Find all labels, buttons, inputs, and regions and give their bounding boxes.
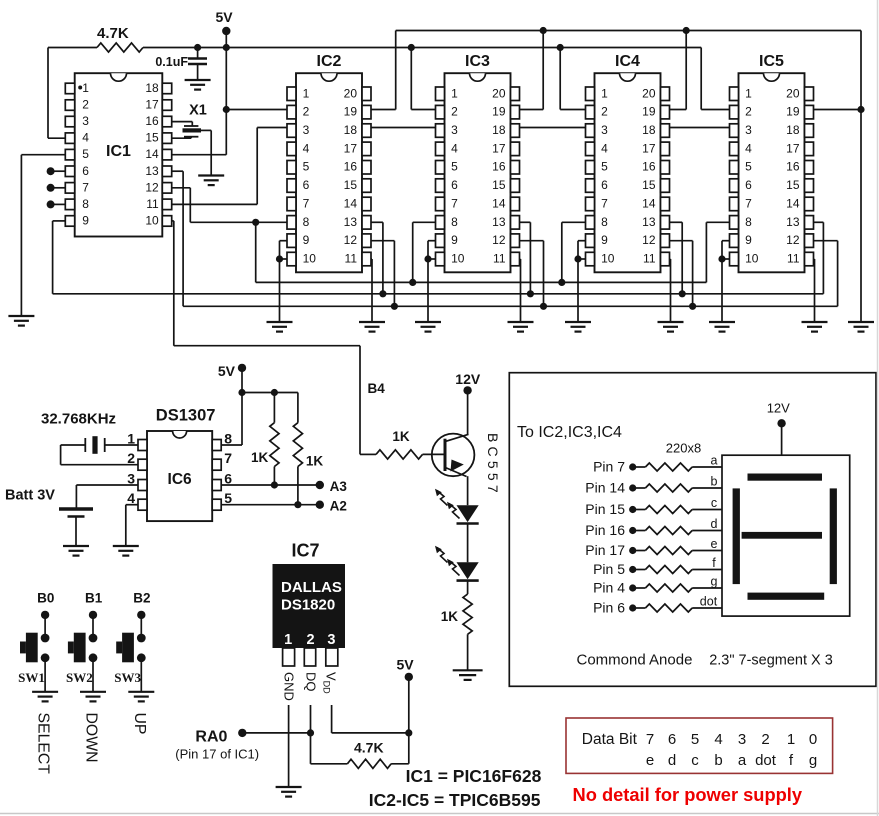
svg-text:Pin 4: Pin 4: [593, 580, 625, 596]
svg-text:8: 8: [82, 197, 89, 211]
svg-text:X1: X1: [189, 103, 207, 119]
svg-text:20: 20: [492, 86, 506, 100]
svg-text:16: 16: [492, 160, 506, 174]
svg-text:11: 11: [493, 252, 506, 266]
svg-text:2: 2: [761, 731, 769, 748]
svg-text:10: 10: [451, 252, 465, 266]
svg-text:15: 15: [344, 178, 358, 192]
svg-text:5V: 5V: [218, 363, 236, 379]
svg-text:BC557: BC557: [485, 433, 501, 497]
svg-text:To IC2,IC3,IC4: To IC2,IC3,IC4: [517, 424, 622, 441]
svg-text:e: e: [646, 752, 654, 769]
svg-text:1K: 1K: [441, 609, 459, 624]
svg-text:c: c: [711, 496, 717, 510]
svg-text:20: 20: [786, 86, 800, 100]
svg-text:DOWN: DOWN: [83, 713, 100, 763]
svg-text:e: e: [711, 537, 718, 551]
svg-text:Pin 5: Pin 5: [593, 561, 625, 577]
svg-text:11: 11: [643, 252, 656, 266]
svg-text:1K: 1K: [251, 450, 269, 465]
svg-text:Commond Anode: Commond Anode: [577, 652, 693, 669]
svg-text:13: 13: [145, 164, 159, 178]
svg-text:DQ: DQ: [304, 672, 319, 692]
svg-text:3: 3: [601, 123, 608, 137]
svg-text:19: 19: [642, 105, 656, 119]
svg-text:7: 7: [745, 197, 752, 211]
svg-text:6: 6: [601, 178, 608, 192]
svg-text:6: 6: [224, 471, 232, 487]
svg-text:Pin 6: Pin 6: [593, 600, 625, 616]
svg-text:9: 9: [745, 233, 752, 247]
svg-text:7: 7: [451, 197, 458, 211]
svg-text:g: g: [809, 752, 817, 769]
svg-text:4: 4: [451, 141, 458, 155]
svg-text:b: b: [711, 475, 718, 489]
svg-text:17: 17: [642, 141, 656, 155]
svg-text:14: 14: [786, 197, 800, 211]
svg-text:IC1 = PIC16F628: IC1 = PIC16F628: [406, 766, 542, 786]
svg-text:13: 13: [492, 215, 506, 229]
svg-text:15: 15: [786, 178, 800, 192]
svg-text:1: 1: [451, 86, 458, 100]
svg-text:1: 1: [284, 632, 292, 648]
svg-text:DS1307: DS1307: [156, 407, 216, 425]
svg-text:2: 2: [82, 98, 89, 112]
svg-text:1: 1: [745, 86, 752, 100]
svg-text:3: 3: [451, 123, 458, 137]
svg-text:5: 5: [303, 160, 310, 174]
svg-text:2: 2: [306, 632, 314, 648]
svg-text:5V: 5V: [397, 657, 415, 673]
svg-text:7: 7: [303, 197, 310, 211]
svg-text:2: 2: [451, 105, 458, 119]
svg-text:5: 5: [451, 160, 458, 174]
svg-text:0: 0: [809, 731, 817, 748]
svg-text:18: 18: [492, 123, 506, 137]
svg-text:16: 16: [145, 114, 159, 128]
svg-text:4.7K: 4.7K: [354, 740, 384, 756]
svg-text:20: 20: [642, 86, 656, 100]
svg-text:12: 12: [642, 233, 656, 247]
svg-text:Batt 3V: Batt 3V: [5, 488, 55, 504]
svg-text:6: 6: [668, 731, 676, 748]
svg-text:3: 3: [745, 123, 752, 137]
svg-text:4: 4: [601, 141, 608, 155]
svg-text:1: 1: [82, 81, 89, 95]
svg-text:12V: 12V: [455, 371, 481, 387]
svg-text:IC3: IC3: [465, 53, 490, 70]
svg-text:B4: B4: [368, 381, 386, 396]
svg-text:5: 5: [224, 490, 232, 506]
svg-text:d: d: [668, 752, 676, 769]
svg-text:13: 13: [786, 215, 800, 229]
svg-text:7: 7: [82, 180, 89, 194]
svg-text:6: 6: [451, 178, 458, 192]
svg-text:12: 12: [344, 233, 358, 247]
svg-text:16: 16: [344, 160, 358, 174]
svg-text:4.7K: 4.7K: [97, 25, 129, 42]
svg-text:5V: 5V: [215, 9, 233, 25]
svg-text:18: 18: [145, 81, 159, 95]
svg-text:18: 18: [786, 123, 800, 137]
svg-text:6: 6: [745, 178, 752, 192]
svg-text:5: 5: [601, 160, 608, 174]
svg-text:f: f: [712, 556, 716, 570]
svg-text:11: 11: [146, 197, 159, 211]
svg-text:SW1: SW1: [18, 670, 45, 685]
svg-text:Pin 16: Pin 16: [585, 522, 625, 538]
svg-text:0.1uF: 0.1uF: [155, 55, 188, 69]
svg-text:4: 4: [745, 141, 752, 155]
svg-text:IC7: IC7: [291, 541, 319, 561]
svg-text:4: 4: [714, 731, 722, 748]
svg-text:10: 10: [745, 252, 759, 266]
svg-text:220x8: 220x8: [666, 441, 701, 456]
svg-text:13: 13: [344, 215, 358, 229]
svg-text:12: 12: [492, 233, 506, 247]
svg-text:19: 19: [786, 105, 800, 119]
svg-text:a: a: [711, 454, 718, 468]
svg-text:10: 10: [145, 213, 159, 227]
svg-text:7: 7: [646, 731, 654, 748]
svg-text:DS1820: DS1820: [281, 597, 335, 614]
svg-text:A2: A2: [330, 499, 347, 514]
svg-text:11: 11: [345, 252, 358, 266]
svg-text:1: 1: [303, 86, 310, 100]
svg-text:IC4: IC4: [615, 53, 640, 70]
svg-text:c: c: [691, 752, 699, 769]
svg-text:14: 14: [492, 197, 506, 211]
svg-text:IC2-IC5 = TPIC6B595: IC2-IC5 = TPIC6B595: [369, 790, 541, 810]
svg-text:16: 16: [786, 160, 800, 174]
svg-text:1: 1: [127, 431, 135, 447]
svg-text:Pin 15: Pin 15: [585, 501, 625, 517]
svg-text:(Pin 17 of IC1): (Pin 17 of IC1): [175, 747, 259, 762]
svg-text:16: 16: [642, 160, 656, 174]
svg-text:4: 4: [82, 131, 89, 145]
svg-text:UP: UP: [131, 713, 148, 735]
svg-text:10: 10: [303, 252, 317, 266]
svg-text:dot: dot: [755, 752, 777, 769]
svg-text:B2: B2: [133, 591, 150, 606]
svg-text:d: d: [711, 517, 718, 531]
svg-text:19: 19: [492, 105, 506, 119]
svg-text:3: 3: [738, 731, 746, 748]
svg-text:17: 17: [145, 98, 159, 112]
svg-text:5: 5: [691, 731, 699, 748]
svg-text:17: 17: [344, 141, 358, 155]
svg-text:SW2: SW2: [66, 670, 93, 685]
svg-text:5: 5: [745, 160, 752, 174]
svg-text:15: 15: [492, 178, 506, 192]
svg-text:a: a: [738, 752, 747, 769]
svg-text:1: 1: [787, 731, 795, 748]
svg-text:RA0: RA0: [195, 729, 227, 746]
svg-text:SELECT: SELECT: [35, 713, 52, 775]
svg-text:14: 14: [344, 197, 358, 211]
svg-text:SW3: SW3: [114, 670, 141, 685]
svg-text:7: 7: [601, 197, 608, 211]
svg-text:4: 4: [127, 490, 135, 506]
svg-text:g: g: [711, 575, 718, 589]
svg-text:IC6: IC6: [168, 471, 193, 488]
svg-text:Pin 7: Pin 7: [593, 459, 625, 475]
svg-text:7: 7: [224, 450, 232, 466]
svg-text:4: 4: [303, 141, 310, 155]
svg-text:6: 6: [82, 164, 89, 178]
svg-text:IC5: IC5: [759, 53, 784, 70]
svg-text:9: 9: [82, 213, 89, 227]
svg-text:32.768KHz: 32.768KHz: [41, 411, 116, 428]
svg-text:15: 15: [145, 131, 159, 145]
svg-text:10: 10: [601, 252, 615, 266]
svg-text:15: 15: [642, 178, 656, 192]
svg-text:9: 9: [601, 233, 608, 247]
svg-text:2: 2: [303, 105, 310, 119]
svg-text:GND: GND: [282, 672, 297, 701]
svg-text:8: 8: [303, 215, 310, 229]
svg-text:9: 9: [303, 233, 310, 247]
svg-text:IC1: IC1: [106, 143, 131, 160]
svg-text:14: 14: [642, 197, 656, 211]
svg-text:3: 3: [82, 114, 89, 128]
svg-text:A3: A3: [330, 479, 348, 494]
svg-text:8: 8: [601, 215, 608, 229]
svg-text:8: 8: [224, 431, 232, 447]
svg-text:3: 3: [127, 471, 135, 487]
svg-text:Pin 14: Pin 14: [585, 480, 625, 496]
svg-text:Pin 17: Pin 17: [585, 542, 625, 558]
svg-text:12: 12: [145, 180, 159, 194]
svg-text:12V: 12V: [767, 401, 790, 416]
svg-text:2: 2: [127, 450, 135, 466]
svg-text:B0: B0: [37, 591, 54, 606]
svg-text:9: 9: [451, 233, 458, 247]
svg-text:11: 11: [787, 252, 800, 266]
svg-text:3: 3: [327, 632, 335, 648]
svg-text:1K: 1K: [392, 429, 410, 444]
svg-text:17: 17: [786, 141, 800, 155]
svg-text:6: 6: [303, 178, 310, 192]
svg-text:IC2: IC2: [317, 53, 342, 70]
svg-text:b: b: [714, 752, 722, 769]
svg-text:8: 8: [745, 215, 752, 229]
svg-text:2: 2: [745, 105, 752, 119]
svg-text:14: 14: [145, 147, 159, 161]
svg-text:Data Bit: Data Bit: [582, 731, 638, 748]
svg-text:19: 19: [344, 105, 358, 119]
svg-text:2: 2: [601, 105, 608, 119]
svg-text:20: 20: [344, 86, 358, 100]
svg-text:17: 17: [492, 141, 506, 155]
svg-text:1: 1: [601, 86, 608, 100]
svg-text:8: 8: [451, 215, 458, 229]
svg-text:3: 3: [303, 123, 310, 137]
svg-text:18: 18: [642, 123, 656, 137]
svg-text:DALLAS: DALLAS: [281, 579, 342, 596]
svg-text:B1: B1: [85, 591, 103, 606]
svg-text:18: 18: [344, 123, 358, 137]
svg-text:5: 5: [82, 147, 89, 161]
svg-text:12: 12: [786, 233, 800, 247]
svg-text:dot: dot: [700, 595, 718, 609]
svg-text:No detail for power supply: No detail for power supply: [573, 784, 803, 805]
svg-text:1K: 1K: [306, 454, 324, 469]
svg-text:2.3" 7-segment X 3: 2.3" 7-segment X 3: [709, 653, 833, 669]
svg-text:13: 13: [642, 215, 656, 229]
